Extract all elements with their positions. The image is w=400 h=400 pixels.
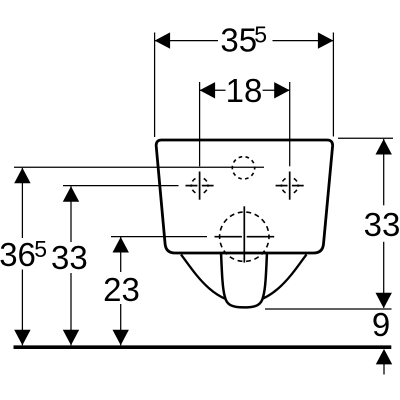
svg-text:33: 33 <box>51 239 88 276</box>
svg-text:18: 18 <box>226 72 263 109</box>
svg-text:36: 36 <box>0 236 36 273</box>
svg-text:33: 33 <box>364 206 400 243</box>
svg-text:5: 5 <box>34 236 47 262</box>
svg-text:5: 5 <box>254 21 267 47</box>
svg-text:9: 9 <box>372 306 390 343</box>
svg-text:23: 23 <box>103 271 140 308</box>
svg-text:35: 35 <box>220 21 257 58</box>
